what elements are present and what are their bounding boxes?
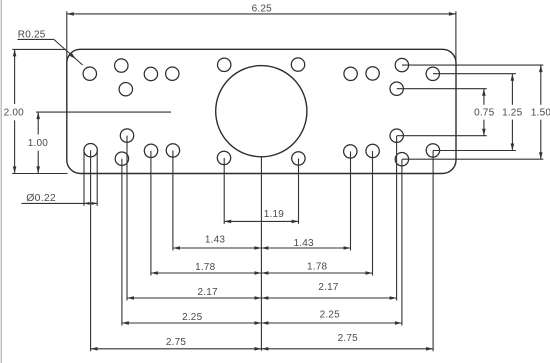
- extension line: x=350.5 down: [350, 151, 352, 250]
- plate outline (rounded rectangle): [67, 49, 456, 173]
- svg-text:1.19: 1.19: [264, 209, 285, 220]
- dimension 2.17 right label: [318, 282, 339, 293]
- dimension 1.00 label: [28, 138, 49, 149]
- hole H9: [366, 67, 379, 80]
- svg-text:1.25: 1.25: [502, 107, 523, 118]
- svg-text:0.75: 0.75: [474, 107, 495, 118]
- extension line: 1.00 mid-height: [36, 111, 171, 113]
- dimension 1.50 line: [539, 65, 543, 159]
- dimension 1.43 left label: [205, 235, 226, 246]
- extension line: plate top-left corner up: [66, 11, 68, 62]
- dimension 6.25 label: [252, 4, 273, 15]
- dimension 1.78 right label: [307, 261, 328, 272]
- extension line: x=433.1 down: [432, 150, 434, 351]
- hole H8: [344, 67, 357, 80]
- svg-text:1.43: 1.43: [205, 235, 226, 246]
- faint left border line: [0, 0, 2, 363]
- dimension 2.17 left label: [197, 287, 218, 298]
- dimension 2.75 right line: [261, 347, 433, 351]
- svg-text:6.25: 6.25: [252, 4, 273, 15]
- svg-text:2.00: 2.00: [4, 108, 25, 119]
- hole H5: [166, 67, 179, 80]
- dimension 6.25 line: [67, 12, 456, 16]
- dimension 2.17 right line: [261, 296, 396, 300]
- dimension 1.78 left line: [151, 271, 262, 275]
- dimension 0.22 label: [26, 192, 56, 204]
- svg-text:1.78: 1.78: [195, 262, 216, 273]
- dimension 0.75 label: [474, 107, 495, 118]
- extension line: x=90.6 down: [90, 150, 92, 351]
- svg-text:Ø0.22: Ø0.22: [26, 192, 56, 204]
- hole H1: [83, 67, 96, 80]
- hole H14: [390, 129, 403, 142]
- hole H7: [291, 58, 304, 71]
- svg-text:2.25: 2.25: [320, 310, 341, 321]
- dimension 2.25 right line: [261, 321, 402, 325]
- hole H20: [426, 144, 439, 157]
- extension line: 1.50 bottom: [402, 158, 543, 160]
- hole H16: [144, 144, 157, 157]
- dimension 1.19 label: [264, 209, 285, 220]
- hole H10: [395, 58, 408, 71]
- extension line: hole H22 down: [223, 158, 225, 224]
- dimension 1.43 left line: [173, 246, 262, 250]
- hole H23: [292, 152, 305, 165]
- hole H3: [119, 83, 132, 96]
- extension line: x=396.6 down: [396, 136, 398, 301]
- hole H24: [395, 153, 408, 166]
- svg-text:2.75: 2.75: [338, 333, 359, 344]
- dimension 1.78 left label: [195, 262, 216, 273]
- dimension 2.17 left line: [127, 296, 261, 300]
- dimension 2.25 left label: [182, 312, 203, 323]
- svg-text:2.17: 2.17: [197, 287, 218, 298]
- svg-text:1.43: 1.43: [293, 238, 314, 249]
- R0.25 label: [18, 29, 46, 40]
- dimension 2.75 left line: [91, 347, 262, 351]
- extension line: 1.50 top: [402, 64, 543, 66]
- hole H11: [426, 67, 439, 80]
- R0.25 leader line: [18, 39, 83, 65]
- hole H13: [120, 129, 133, 142]
- extension line: hole H23 down: [298, 158, 300, 224]
- hole H12: [390, 82, 403, 95]
- hole H6: [218, 58, 231, 71]
- extension line: 1.25 top: [433, 73, 516, 75]
- dimension 1.25 line: [511, 74, 515, 151]
- svg-text:2.75: 2.75: [166, 337, 187, 348]
- hole H2: [115, 59, 128, 72]
- dimension 1.00 line: [36, 112, 40, 173]
- svg-text:1.50: 1.50: [531, 107, 550, 118]
- extension line: x=150.9 down: [150, 151, 152, 276]
- dimension 2.75 right label: [338, 333, 359, 344]
- hole H22: [217, 151, 230, 164]
- extension line: x=121.9 down: [121, 159, 123, 326]
- extension line: x=127 down: [126, 136, 128, 301]
- extension line: x=172.9 down: [172, 150, 174, 250]
- hole H4: [144, 67, 157, 80]
- dimension 2.25 right label: [320, 310, 341, 321]
- svg-text:2.17: 2.17: [318, 282, 339, 293]
- dimension 0.22 leader line: [22, 202, 98, 205]
- dimension 2.00 label: [4, 108, 25, 119]
- dimension 2.25 left line: [122, 321, 262, 325]
- extension line: 0.75 bottom: [397, 135, 487, 137]
- dimension 1.19 line: [224, 220, 298, 224]
- dimension 1.43 right line: [261, 246, 350, 250]
- dimension 2.75 left label: [166, 337, 187, 348]
- dimension 1.43 right label: [293, 238, 314, 249]
- extension line: x=401.9 down: [401, 159, 403, 325]
- dimension 0.75 line: [482, 89, 486, 136]
- extension line: x=372.5 down: [372, 151, 374, 276]
- dimension 2.00 line: [13, 49, 17, 173]
- dimension 1.50 label: [531, 107, 550, 118]
- hole H18: [344, 145, 357, 158]
- dimension 1.25 label: [502, 107, 523, 118]
- hole H15: [84, 144, 97, 157]
- hole H21: [115, 152, 128, 165]
- extension line: 2.00 top: [12, 48, 65, 50]
- svg-text:R0.25: R0.25: [18, 29, 46, 40]
- extension line: plate bottom edge extended left: [12, 173, 67, 175]
- extension line: hole tangent left: [83, 150, 85, 206]
- extension line: plate top-right corner up: [455, 11, 457, 62]
- svg-text:1.00: 1.00: [28, 138, 49, 149]
- dimension 1.78 right line: [261, 271, 372, 275]
- extension line: 0.75 top: [397, 88, 487, 90]
- center bore (large circle): [216, 66, 307, 157]
- hole H17: [166, 144, 179, 157]
- svg-text:1.78: 1.78: [307, 261, 328, 272]
- extension line: 1.25 bottom: [433, 150, 516, 152]
- svg-text:2.25: 2.25: [182, 312, 203, 323]
- hole H19: [366, 144, 379, 157]
- center reference line: [260, 157, 262, 351]
- extension line: hole tangent right: [96, 150, 98, 206]
